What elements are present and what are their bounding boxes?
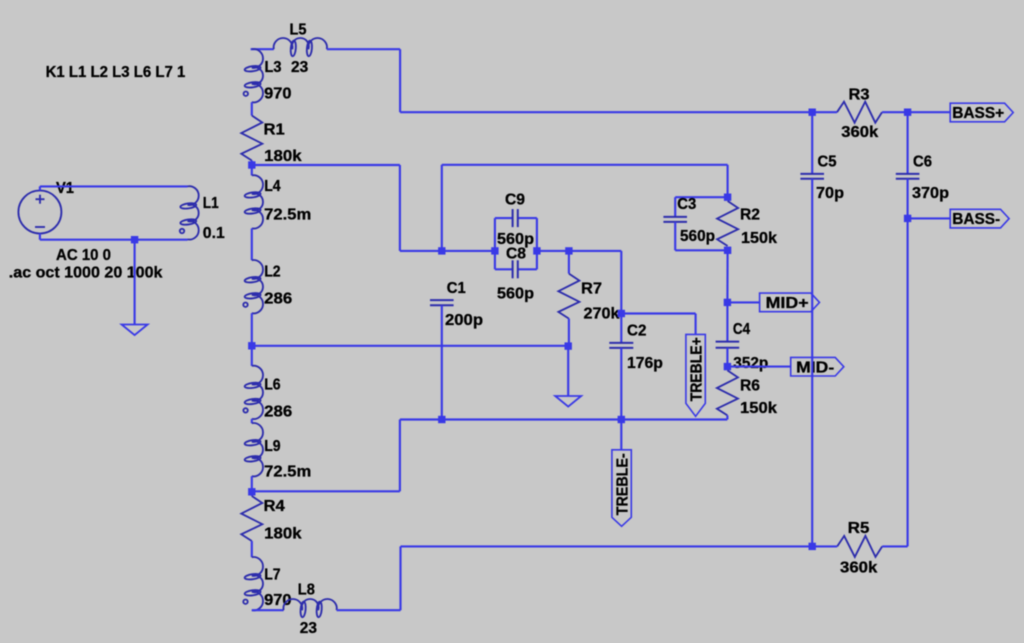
- svg-text:23: 23: [291, 59, 308, 76]
- svg-text:R2: R2: [740, 207, 760, 224]
- svg-text:MID-: MID-: [796, 359, 834, 376]
- wire R5 leads: [812, 545, 907, 547]
- svg-text:C8: C8: [506, 246, 526, 263]
- svg-text:C2: C2: [627, 323, 646, 340]
- junction R7 ground node: [565, 342, 572, 349]
- svg-text:K1 L1 L2 L3 L6 L7 1: K1 L1 L2 L3 L6 L7 1: [46, 64, 186, 81]
- wire L3 top to L5: [251, 48, 274, 50]
- svg-text:R5: R5: [848, 520, 870, 537]
- wire C4 bottom lead: [726, 348, 728, 367]
- svg-text:C9: C9: [505, 192, 525, 209]
- wire C2 top lead: [620, 314, 622, 343]
- wire C8 branch: [495, 251, 537, 269]
- wire top rail corner to R2: [727, 165, 729, 197]
- svg-text:R1: R1: [264, 122, 285, 139]
- svg-text:R3: R3: [849, 87, 870, 104]
- svg-text:560p: 560p: [497, 286, 534, 303]
- svg-text:176p: 176p: [627, 355, 663, 372]
- svg-text:C5: C5: [818, 154, 837, 171]
- svg-text:70p: 70p: [816, 185, 844, 202]
- junction C9-C8 right: [533, 247, 540, 254]
- wire BASS+ lead: [908, 111, 951, 113]
- junction R5 left: [809, 543, 816, 550]
- inductor L9: [244, 423, 263, 476]
- wire C6 bottom long: [907, 179, 909, 547]
- net flag TREBLE-: [612, 450, 631, 527]
- capacitor C6: [896, 174, 920, 179]
- svg-text:72.5m: 72.5m: [264, 206, 311, 223]
- junction node L9-R4 tap: [248, 488, 255, 495]
- junction node R1-L4 tap: [248, 161, 255, 168]
- wire L5 to top right rail: [327, 49, 812, 112]
- capacitor C4: [716, 342, 740, 348]
- wire C6 top lead: [907, 112, 909, 174]
- svg-text:L1: L1: [203, 195, 219, 212]
- voltage source V1: [18, 191, 61, 234]
- junction R2 top: [724, 194, 731, 201]
- junction C1 bottom: [438, 416, 445, 423]
- junction R2 bottom: [724, 247, 731, 254]
- svg-text:L5: L5: [290, 22, 307, 39]
- capacitor C1: [430, 300, 454, 305]
- resistor R5: [837, 536, 882, 557]
- inductor L2: [243, 260, 263, 313]
- junction BASS- node: [904, 215, 911, 222]
- inductor L7: [243, 557, 263, 610]
- inductor L3: [244, 49, 263, 102]
- net flag MID-: [791, 357, 844, 376]
- wire R1 tap to mid node: [252, 165, 442, 251]
- wire L4 to L2: [251, 228, 253, 260]
- svg-text:72.5m: 72.5m: [264, 464, 311, 481]
- wire bottom long rail: [401, 545, 813, 547]
- resistor R6: [717, 370, 738, 415]
- svg-text:C6: C6: [913, 154, 932, 171]
- svg-text:C3: C3: [677, 196, 696, 213]
- svg-text:180k: 180k: [264, 148, 302, 165]
- inductor L1: [180, 186, 199, 239]
- svg-text:L6: L6: [264, 377, 280, 394]
- wire R2 bottom to C4: [726, 250, 728, 302]
- wire MID- lead: [727, 366, 790, 368]
- svg-text:BASS+: BASS+: [952, 105, 1004, 122]
- svg-text:560p: 560p: [680, 228, 715, 245]
- wire C3 bottom branch: [675, 222, 727, 250]
- wire BASS- lead: [908, 217, 951, 219]
- wire TREBLE+ branch: [621, 314, 695, 335]
- wire R1 to L4: [251, 161, 253, 176]
- wire C4 top lead: [726, 302, 728, 341]
- svg-text:0.1: 0.1: [203, 225, 225, 242]
- svg-text:R4: R4: [264, 498, 285, 515]
- wire ground lead mid: [567, 346, 569, 396]
- svg-text:352p: 352p: [733, 355, 768, 372]
- inductor L4: [244, 175, 263, 228]
- svg-text:TREBLE+: TREBLE+: [688, 337, 705, 401]
- net flag BASS-: [950, 209, 1009, 228]
- wire L2 tap to ground node: [252, 345, 568, 347]
- junction C1 top: [438, 247, 445, 254]
- junction R7 top: [565, 247, 572, 254]
- wire L6 to L9: [251, 419, 253, 423]
- svg-text:286: 286: [264, 290, 292, 307]
- wire mid top horizontal: [442, 165, 728, 251]
- wire V1 bottom to L1 bottom: [40, 234, 188, 240]
- svg-text:270k: 270k: [584, 306, 620, 323]
- svg-text:200p: 200p: [445, 312, 483, 329]
- wire L2 to L6: [251, 313, 253, 366]
- svg-text:V1: V1: [56, 180, 74, 197]
- svg-text:360k: 360k: [841, 124, 878, 141]
- svg-text:180k: 180k: [264, 525, 302, 542]
- junction C5 top: [809, 109, 816, 116]
- svg-text:L3: L3: [265, 59, 282, 76]
- junction node L2-L6 tap: [248, 342, 255, 349]
- wire L8 to bottom rail: [337, 546, 401, 610]
- wire R7 top lead: [568, 251, 570, 274]
- resistor R1: [241, 116, 262, 161]
- wire R7 top to C2 corner: [569, 251, 621, 314]
- svg-text:L7: L7: [264, 567, 280, 584]
- svg-text:R6: R6: [740, 378, 760, 395]
- svg-text:MID+: MID+: [766, 295, 809, 312]
- wire C9 branch: [495, 218, 537, 251]
- net flag TREBLE+: [686, 334, 705, 416]
- wire R4 to L7: [251, 541, 253, 557]
- inductor L6: [243, 366, 263, 419]
- svg-text:L2: L2: [264, 263, 280, 280]
- svg-text:970: 970: [264, 86, 291, 103]
- svg-text:23: 23: [300, 620, 317, 637]
- wire C5 bottom long: [811, 179, 813, 547]
- wire to ground under V1: [134, 240, 136, 325]
- net flag BASS+: [950, 103, 1013, 122]
- svg-text:286: 286: [264, 404, 292, 421]
- capacitor C3: [663, 217, 687, 222]
- resistor R3: [837, 102, 882, 123]
- junction V1 bottom ground tap: [131, 236, 138, 243]
- svg-text:370p: 370p: [912, 185, 949, 202]
- svg-text:L8: L8: [298, 582, 315, 599]
- junction C9-C8 left: [491, 247, 498, 254]
- svg-text:AC 10 0: AC 10 0: [56, 247, 111, 264]
- junction C4 top MID+ node: [724, 299, 731, 306]
- svg-text:L4: L4: [264, 178, 280, 195]
- svg-text:150k: 150k: [741, 230, 777, 247]
- wire C2 bottom lead: [620, 348, 622, 420]
- wire R3 leads: [812, 111, 907, 113]
- wire V1 top to L1: [40, 186, 188, 190]
- junction C6 top: [904, 109, 911, 116]
- wire L9 to R4: [251, 476, 253, 496]
- svg-text:360k: 360k: [840, 560, 877, 577]
- wire TREBLE- lead: [620, 420, 622, 450]
- inductor L5: [274, 38, 327, 56]
- wire R7 bottom lead: [568, 319, 570, 347]
- wire bottom mid horizontal: [252, 420, 728, 492]
- junction C4 bottom MID- node: [724, 363, 731, 370]
- svg-text:TREBLE-: TREBLE-: [614, 453, 631, 515]
- wire L7 to L8: [252, 609, 284, 611]
- resistor R4: [241, 496, 262, 541]
- wire C3 top branch: [675, 197, 727, 217]
- wire C5 top lead: [811, 112, 813, 174]
- junction TREBLE- node: [618, 416, 625, 423]
- wire mid node to C9-C8 group: [442, 250, 495, 252]
- ground mid circuit: [555, 396, 581, 407]
- svg-text:R7: R7: [581, 281, 602, 298]
- resistor R7: [558, 274, 579, 319]
- net flag MID+: [760, 293, 820, 312]
- svg-text:BASS-: BASS-: [952, 211, 1000, 228]
- svg-text:C1: C1: [447, 280, 466, 297]
- capacitor C8: [513, 260, 518, 278]
- capacitor C9: [513, 209, 518, 227]
- junction C2 top: [618, 310, 625, 317]
- svg-text:C4: C4: [733, 321, 750, 338]
- svg-text:.ac oct 1000 20 100k: .ac oct 1000 20 100k: [9, 265, 163, 282]
- wire L3 to R1: [251, 102, 253, 115]
- capacitor C5: [800, 174, 824, 179]
- wire R6 bottom lead: [726, 415, 728, 419]
- svg-text:L9: L9: [264, 438, 280, 455]
- inductor L8: [283, 599, 336, 617]
- wire C1 bottom: [441, 305, 443, 419]
- capacitor C2: [609, 343, 633, 348]
- wire MID+ lead: [727, 301, 759, 303]
- wire C9-C8 group to R7: [537, 250, 569, 252]
- ground under V1: [122, 325, 148, 336]
- svg-text:150k: 150k: [740, 400, 777, 417]
- resistor R2: [717, 201, 738, 246]
